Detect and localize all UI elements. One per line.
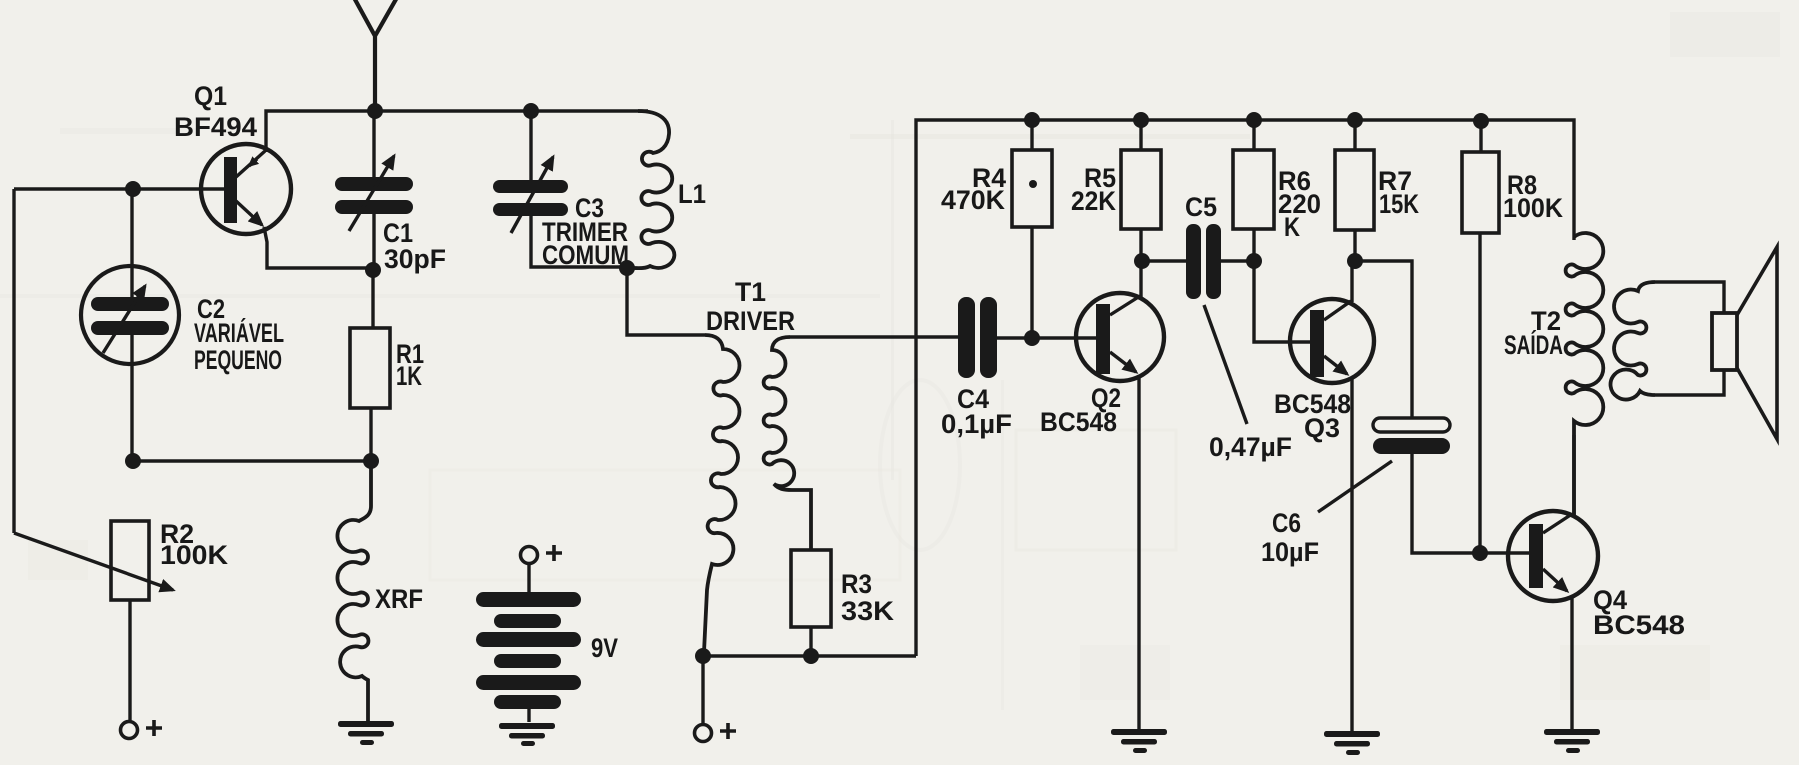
svg-text:XRF: XRF (375, 584, 423, 614)
node R3 bottom (803, 648, 819, 664)
svg-text:K: K (1284, 212, 1300, 242)
label R2 (160, 519, 229, 570)
svg-text:R3: R3 (841, 569, 872, 599)
transformer T1 secondary (764, 337, 811, 550)
potentiometer R2 (14, 521, 173, 600)
wire R3 bottom (809, 627, 812, 656)
svg-text:BC548: BC548 (1593, 610, 1685, 640)
wire C2 to R1/XRF junction (133, 459, 371, 462)
wire Q1 emitter to C1 bottom (264, 227, 373, 268)
label R3 (841, 569, 895, 626)
svg-text:Q3: Q3 (1304, 413, 1340, 443)
wire R7 (1353, 120, 1356, 261)
svg-text:L1: L1 (678, 179, 706, 209)
inductor L1 (630, 111, 674, 268)
label C6 (1261, 508, 1319, 567)
wire R1 bottom (369, 408, 372, 461)
ground under Q3 (1324, 731, 1380, 755)
wire C2 vertical (130, 189, 133, 461)
node R4 top (1024, 112, 1040, 128)
ground under battery (499, 723, 555, 746)
node R1/XRF junction (363, 453, 379, 469)
svg-text:10µF: 10µF (1261, 537, 1319, 567)
transistor Q1 (201, 144, 291, 234)
node R6 top (1246, 112, 1262, 128)
label T2 (1504, 306, 1563, 360)
wire T1 secondary to C4 (790, 335, 958, 338)
ground under Q2 (1111, 729, 1167, 753)
capacitor C1 (335, 156, 413, 231)
svg-text:BC548: BC548 (1040, 407, 1117, 437)
wire R2 bottom (128, 600, 131, 721)
wire R7 node to C6 (1355, 261, 1412, 418)
terminal + bottom left (121, 720, 163, 739)
label T1 (706, 277, 795, 336)
resistor R4 (1012, 150, 1052, 227)
transformer T2 primary (1566, 233, 1604, 516)
wire Q1 base (14, 187, 225, 190)
svg-text:100K: 100K (160, 540, 229, 570)
label R4 (941, 163, 1006, 215)
resistor R7 (1335, 150, 1374, 230)
svg-text:Q1: Q1 (194, 81, 227, 111)
label R8 (1503, 170, 1563, 223)
svg-text:C6: C6 (1272, 508, 1301, 538)
wire T1 terminal stem (701, 656, 704, 724)
wire C1 to R1 (371, 270, 374, 328)
node R7 top (1347, 112, 1363, 128)
wire C1 vertical (372, 111, 375, 270)
svg-text:100K: 100K (1503, 193, 1563, 223)
callout line C5 value (1204, 305, 1247, 424)
wire left rail (12, 189, 15, 533)
svg-text:1K: 1K (396, 361, 422, 391)
label 9V (591, 633, 618, 663)
label C5 value (1209, 432, 1292, 462)
capacitor C3 (493, 157, 568, 233)
wire bottom bus (703, 654, 916, 657)
node R4 bottom junction (1024, 330, 1040, 346)
wire T2 secondary to speaker (1655, 282, 1724, 395)
svg-text:0,47µF: 0,47µF (1209, 432, 1292, 462)
label R7 (1378, 166, 1419, 219)
label C3 (542, 193, 629, 270)
label R5 (1071, 163, 1116, 216)
node R7 bottom (1347, 253, 1363, 269)
node Q4 base junction (1472, 545, 1488, 561)
ground under Q4 (1544, 729, 1600, 753)
svg-text:VARIÁVEL: VARIÁVEL (194, 317, 284, 348)
wire C4 to Q2 base (997, 336, 1097, 339)
svg-text:BF494: BF494 (174, 112, 257, 142)
node R6 bottom (1246, 253, 1262, 269)
wire supply rail (916, 120, 1574, 656)
transformer T1 primary (704, 335, 740, 652)
wire L1 node to T1 primary (627, 268, 705, 335)
node C3 top (523, 103, 539, 119)
label L1 (678, 179, 706, 209)
transistor Q2 (1076, 261, 1164, 729)
capacitor C4 (958, 297, 997, 378)
antenna (352, 0, 399, 111)
svg-text:15K: 15K (1379, 189, 1419, 219)
capacitor C6 (1373, 418, 1450, 454)
svg-text:0,1µF: 0,1µF (941, 409, 1012, 439)
transistor Q3 (1290, 261, 1374, 731)
label Q4 (1593, 585, 1685, 640)
speaker (1712, 247, 1777, 439)
node C2 top (125, 181, 141, 197)
resistor R8 (1462, 152, 1499, 233)
label R6 (1278, 166, 1321, 242)
label C2 (194, 294, 284, 375)
svg-text:22K: 22K (1071, 186, 1116, 216)
svg-text:T1: T1 (735, 277, 766, 307)
capacitor C5 (1186, 224, 1221, 299)
node C1 bottom (365, 262, 381, 278)
wire R8 (1480, 120, 1481, 553)
svg-text:33K: 33K (841, 596, 895, 626)
wire C5 (1142, 259, 1254, 262)
label Q2 (1040, 383, 1121, 437)
label Q1 (174, 81, 257, 142)
wire top-left rail (266, 111, 648, 152)
svg-text:PEQUENO: PEQUENO (194, 345, 282, 375)
ground under XRF (338, 721, 394, 745)
wire C3 vertical (531, 111, 630, 267)
callout line C6 value (1318, 461, 1392, 512)
label C5 (1185, 192, 1217, 222)
wire R6 (1254, 120, 1310, 342)
node T1 bottom (695, 648, 711, 664)
resistor R6 (1233, 150, 1274, 229)
node R5 top (1133, 112, 1149, 128)
label Q3 (1274, 389, 1351, 443)
inductor XRF (337, 461, 371, 721)
label C1 (383, 218, 446, 274)
wire C6 bottom to Q4 base (1412, 454, 1529, 553)
resistor R1 (350, 328, 390, 408)
label XRF (375, 584, 423, 614)
wire R4 (1030, 120, 1033, 338)
svg-text:SAÍDA: SAÍDA (1504, 329, 1563, 360)
resistor R5 (1121, 150, 1161, 229)
node L1 bottom (619, 260, 635, 276)
capacitor C2 (81, 266, 179, 364)
svg-text:C5: C5 (1185, 192, 1217, 222)
battery 9V (476, 545, 581, 722)
svg-text:470K: 470K (941, 185, 1005, 215)
svg-text:DRIVER: DRIVER (706, 306, 795, 336)
wire R5 (1139, 120, 1142, 261)
resistor R3 (791, 550, 831, 627)
label R1 (396, 339, 424, 391)
transformer T2 secondary (1611, 282, 1655, 400)
node C2 bottom (125, 453, 141, 469)
terminal + under T1 (695, 723, 737, 742)
label C4 (941, 384, 1012, 439)
node R5 bottom (1134, 253, 1150, 269)
transistor Q4 (1508, 435, 1598, 729)
svg-text:30pF: 30pF (384, 244, 446, 274)
svg-text:9V: 9V (591, 633, 618, 663)
node antenna junction (367, 103, 383, 119)
node R8 top (1473, 113, 1489, 129)
